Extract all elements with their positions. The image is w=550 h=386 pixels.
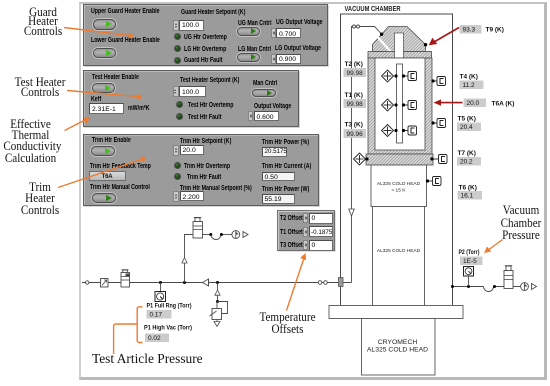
svg-text:T5 (K): T5 (K) [458,116,476,123]
wire vent to pump [203,234,211,236]
svg-text:99.98: 99.98 [347,101,364,108]
test heater panel [83,70,299,127]
label Trim Htr Feedback Temp [90,163,151,170]
wire down to P1 gauge [160,283,162,292]
label Trim Htr Manual Setpoint [180,185,252,192]
spinner Output Voltage [248,111,253,121]
sample bar [397,64,403,143]
label Upper Guard Heater Enable [91,8,160,15]
cryomech base [362,319,436,376]
inlet connector circle [86,281,89,284]
value T3 Offset [309,240,334,251]
arrow on pipe [349,209,355,216]
label LG Output Voltage [275,45,321,52]
button LG Man Cntrl [237,53,260,62]
sensor box row1 [402,72,417,81]
center slot [395,33,404,59]
annotation test line [67,91,141,100]
gauge P2 [464,267,474,277]
value Guard Heater Setpoint [179,20,204,31]
label T6A [464,99,487,108]
node P2 branch [467,285,470,288]
bottom diamond heater [354,153,369,165]
node vent arc right [220,233,223,236]
trim heater panel [83,134,319,206]
value Trim Htr Power W [262,194,296,204]
wire up to P2 gauge [468,275,470,287]
label Test Heater Setpoint [180,77,239,84]
mounting plate [329,306,463,319]
svg-text:99.96: 99.96 [347,131,364,138]
frame vacuum chamber boundary [341,14,453,306]
svg-text:16.1: 16.1 [461,193,474,200]
label T1 Offset [280,229,303,236]
label Test Heater Controls [12,77,67,98]
svg-text:T3 (K): T3 (K) [345,122,363,129]
label Test Heater Enable [92,74,139,81]
valve with box [101,279,109,288]
pump vent [232,230,248,239]
LED Trim Htr Fault [174,173,181,180]
roof [373,27,426,57]
cold head upper box [371,165,427,207]
svg-text:99.98: 99.98 [347,70,364,77]
label Guard Heater Controls [16,8,69,37]
value T2 Offset [309,213,334,224]
svg-text:≈ 15 K: ≈ 15 K [392,188,407,194]
label Guard Heater Setpoint [181,9,245,16]
label Temperature Offsets [259,311,317,336]
crossover arc right [484,287,494,292]
spinner Trim Htr Setpoint [173,145,179,156]
svg-text:0.02: 0.02 [148,335,161,342]
label T3 Offset [280,242,303,249]
label T9 [460,25,482,34]
LED LG Htr Overtemp [174,45,181,52]
value Trim Htr Setpoint [180,145,204,155]
wire elbow up [343,282,352,284]
canister filter right [504,266,513,289]
label Trim Htr Power % [262,139,309,146]
value LG Output Voltage [276,54,301,64]
value Trim Htr Manual Setpoint [180,191,204,201]
svg-text:T7 (K): T7 (K) [458,150,476,157]
node vent arc left [209,233,212,236]
svg-text:T4 (K): T4 (K) [460,74,478,81]
label Trim Htr Enable [92,137,131,144]
node right arc end [493,285,496,288]
annotation keff arrow [65,117,91,131]
svg-text:T1 (K): T1 (K) [345,92,363,99]
quick disconnect [318,281,327,285]
label Test Article Pressure [92,351,212,367]
LED UG Htr Overtemp [174,33,181,40]
value P1 Full Rng [147,310,172,319]
heater diamond row1 [382,70,394,82]
annotation guard line [64,28,133,39]
bottom band [366,154,433,165]
LED Guard Htr Fault [174,57,181,64]
svg-text:T6 (K): T6 (K) [459,185,477,192]
crossover arc vent [211,235,221,240]
spinner Test Heater Setpoint [173,86,179,97]
spinner LG Output Voltage [271,54,276,64]
wire right line [453,286,484,288]
check arrow up [182,258,187,264]
wire vent branch up [185,235,194,283]
toggle Upper Guard Heater Enable [93,19,116,30]
LED Trim Htr Overtemp [174,162,181,169]
value UG Output Voltage [276,28,301,38]
LED Test Htr Overtemp [176,101,183,108]
annotation trim line [58,156,145,187]
label Lower Guard Heater Enable [91,37,160,44]
svg-text:1E-5: 1E-5 [463,258,477,265]
value Test Heater Setpoint [179,86,206,97]
label Effective Thermal Conductivity Calculation [3,119,57,164]
temperature offsets box [277,210,335,251]
label mW/m*K [128,105,150,112]
wire vertical pipe [352,27,353,283]
svg-text:0.17: 0.17 [150,312,163,319]
label Trim Htr Current [262,163,311,170]
sensor box row2 [402,101,417,110]
arrow T9 [429,28,459,46]
wire regulator branch [217,283,219,302]
canister filter 2 [193,218,203,239]
label Keff [91,96,101,103]
node right line at frame [451,285,454,288]
guard heater panel [83,4,328,66]
junction vent branch [183,281,186,284]
spinner Trim Htr Manual Setpoint [173,191,179,202]
svg-text:T6A (K): T6A (K) [492,101,515,108]
sensor box row3 [402,126,417,135]
sensor T6 [426,177,441,186]
flange [368,52,432,59]
wall sensor T4 [431,77,445,86]
toggle Test Heater Enable [92,83,115,94]
svg-text:AL325 COLD HEAD: AL325 COLD HEAD [377,181,421,187]
toggle Trim Htr Manual Control [92,193,116,203]
label Output Voltage [254,103,291,110]
label Vacuum Chamber Pressure [499,204,544,242]
label Trim Htr Manual Control [90,184,150,191]
cold head column [373,207,425,308]
annotation vacuum pressure arrow [484,240,503,254]
svg-text:11.2: 11.2 [463,82,476,89]
label LG Man Cntrl [238,46,271,53]
node roof pipe junction [380,33,383,36]
bottom right sensor T7 [430,155,447,164]
label T2 Offset [280,215,303,222]
label Trim Heater Controls [12,182,67,216]
value Keff [89,103,124,114]
toggle Trim Htr Enable [91,146,115,156]
junction P1 [159,281,162,284]
svg-text:20.0: 20.0 [467,100,480,107]
arrow T6A [434,99,463,105]
svg-text:CRYOMECH: CRYOMECH [378,339,418,346]
gauge P1 [155,292,166,302]
spinner UG Output Voltage [271,28,276,38]
label UG Man Cntrl [238,20,272,27]
svg-text:93.3: 93.3 [463,27,476,34]
chamber walls [368,58,432,154]
junction regulator branch [216,281,219,284]
label UG Output Voltage [276,19,323,26]
label Man Cntrl [253,80,277,87]
button Man Cntrl [252,89,276,98]
node roof right corner [424,43,427,46]
svg-text:AL325 COLD HEAD: AL325 COLD HEAD [367,347,428,354]
svg-text:VACUUM CHAMBER: VACUUM CHAMBER [345,4,401,13]
value P1 High Vac [145,334,169,343]
value P2 [460,257,483,266]
wire main line [82,282,339,284]
svg-text:20.4: 20.4 [460,124,473,131]
dropdown T6A [89,171,126,181]
LED Test Htr Fault [176,113,183,120]
svg-text:20.2: 20.2 [460,159,473,166]
annotation test article bracket [114,307,143,354]
feedthrough fitting [339,278,344,287]
bypass loop [218,302,228,314]
value Trim Htr Power % [262,147,288,157]
value Trim Htr Current [262,172,296,182]
label Trim Htr Power W [262,186,309,193]
heater diamond row2 [382,99,394,111]
pump right [521,282,537,291]
heater diamond row3 [382,125,394,137]
svg-text:T9 (K): T9 (K) [486,27,504,34]
svg-text:T2 (K): T2 (K) [345,61,363,68]
svg-text:P1 Full Rng (Torr): P1 Full Rng (Torr) [147,303,192,310]
toggle Lower Guard Heater Enable [93,48,116,59]
label Trim Htr Setpoint [180,138,231,145]
value Output Voltage [254,111,279,121]
spinner Guard Heater Setpoint [173,20,179,31]
svg-text:P1 High Vac (Torr): P1 High Vac (Torr) [144,325,192,332]
annotation offsets arrow [287,253,307,311]
wall sensor T5 [431,119,445,128]
check valve main line [203,279,209,286]
value T1 Offset [309,226,334,237]
button UG Man Cntrl [237,27,260,36]
svg-text:P2 (Torr): P2 (Torr) [459,249,480,256]
canister filter 1 [121,270,130,287]
svg-text:AL325 COLD HEAD: AL325 COLD HEAD [377,248,421,254]
regulator [210,302,222,327]
